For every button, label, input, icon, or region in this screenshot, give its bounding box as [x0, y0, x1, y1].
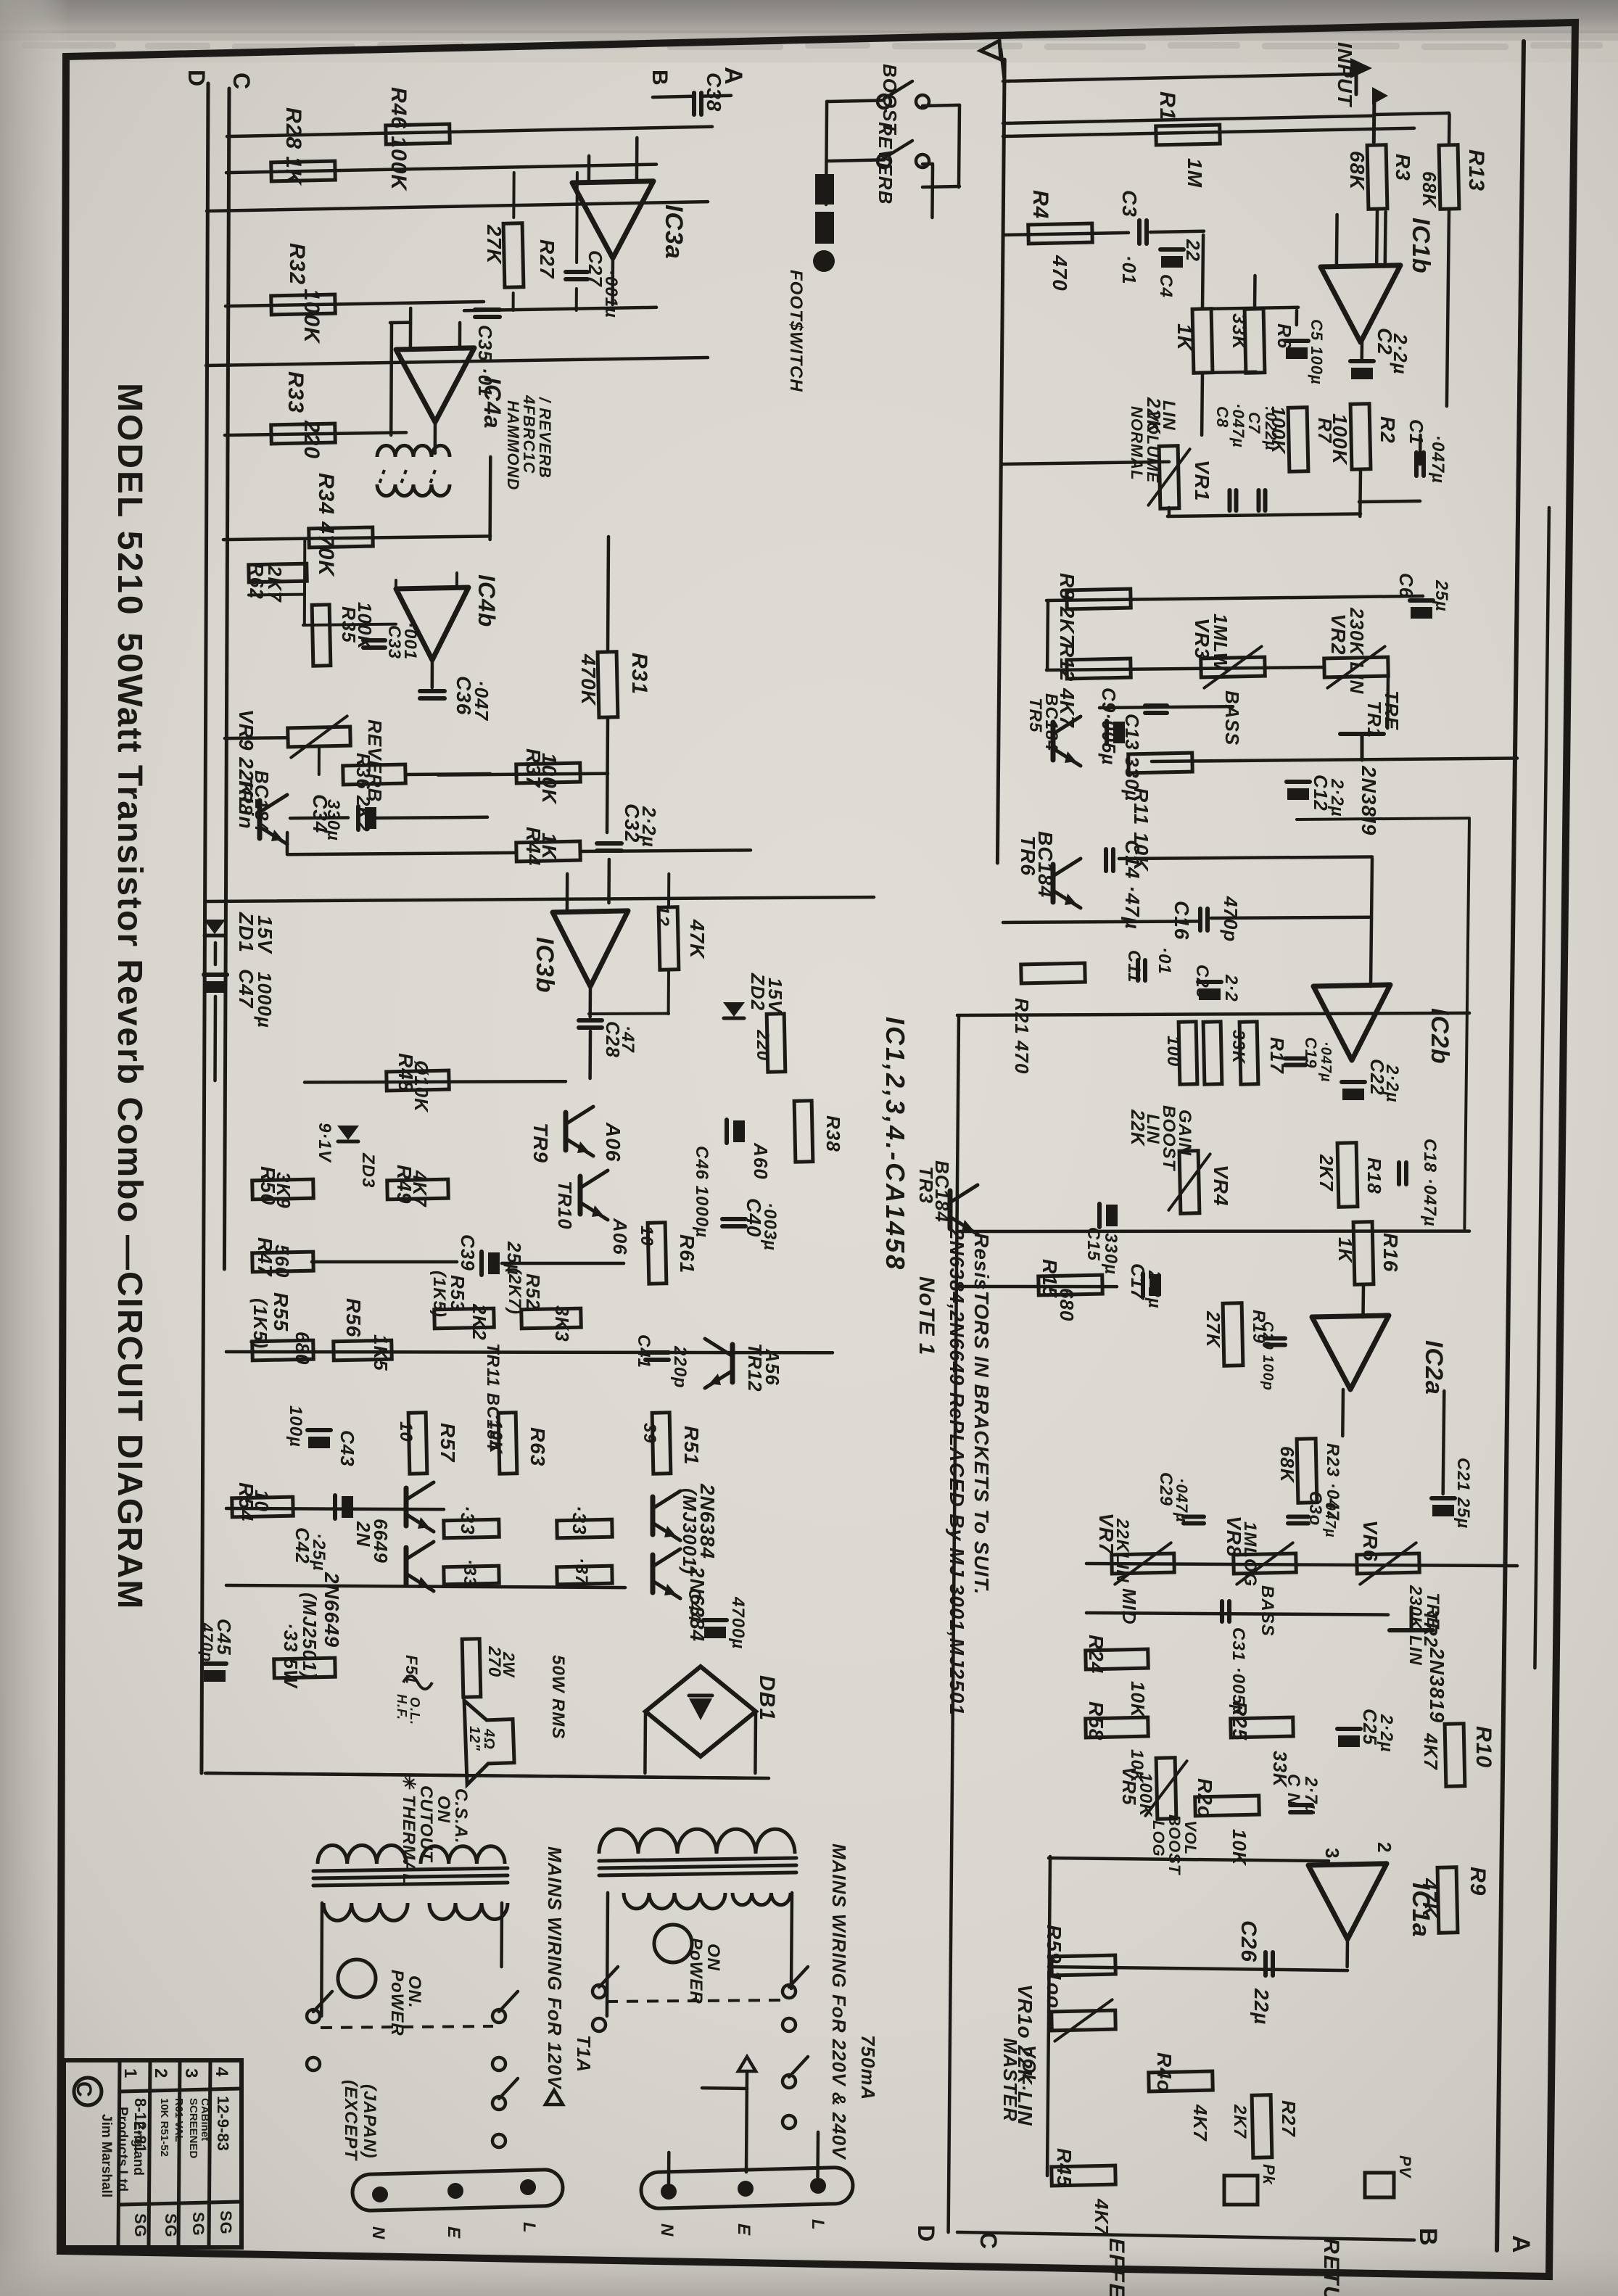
svg-text:R58: R58: [1085, 1701, 1107, 1740]
svg-text:IC2b: IC2b: [1426, 1008, 1453, 1065]
svg-text:1K: 1K: [1173, 323, 1196, 352]
svg-text:VOLUME: VOLUME: [1144, 410, 1162, 483]
svg-text:R57: R57: [437, 1423, 459, 1463]
svg-text:1?: 1?: [653, 905, 672, 927]
cap C39 25u: [479, 1252, 484, 1275]
svg-text:TR1: TR1: [1363, 701, 1385, 738]
long bus under reverb section: [205, 897, 874, 901]
cap C4 22u: [1160, 247, 1184, 252]
svg-text:VOL.: VOL.: [1018, 2045, 1040, 2092]
svg-text:68K: 68K: [1346, 151, 1369, 191]
inner right margin line: [1497, 41, 1524, 2250]
svg-text:E: E: [734, 2223, 754, 2236]
bus y1270: [1003, 921, 1198, 922]
transistor TR2 fet: [1390, 1628, 1433, 1632]
svg-text:3K3: 3K3: [551, 1305, 573, 1342]
wire R32 row: [226, 302, 484, 306]
power transistor 2N6384 upper: [651, 1497, 656, 1535]
svg-text:22: 22: [1182, 239, 1204, 262]
long bus row5: [206, 358, 708, 366]
bottom shading: [0, 2245, 1618, 2296]
cap C27: [566, 270, 587, 274]
cap C40 .0033: [722, 1217, 746, 1221]
svg-text:BC184: BC184: [931, 1160, 953, 1223]
bus y1698: [957, 1229, 1469, 1233]
svg-text:BOOST: BOOST: [1165, 1814, 1184, 1875]
svg-text:4K7: 4K7: [1091, 2198, 1113, 2236]
svg-text:N: N: [368, 2226, 388, 2239]
svg-text:SG: SG: [131, 2213, 149, 2238]
resistor R62 2K7: [249, 563, 307, 582]
cap C41 220p: [645, 1350, 669, 1355]
zener ZD2: [723, 1002, 745, 1017]
cap C9 .005: [1145, 703, 1167, 708]
svg-text:R34 470K: R34 470K: [314, 473, 338, 577]
svg-text:6649: 6649: [370, 1519, 392, 1564]
svg-text:R16: R16: [1379, 1233, 1402, 1272]
svg-text:R52: R52: [522, 1273, 544, 1310]
svg-text:750mA: 750mA: [857, 2035, 879, 2100]
svg-text:·01: ·01: [1155, 947, 1174, 975]
svg-text:DB1: DB1: [755, 1675, 779, 1721]
svg-text:·003µ: ·003µ: [760, 1202, 780, 1251]
svg-text:L: L: [808, 2219, 827, 2231]
resistor R12 4K7: [1067, 658, 1131, 679]
svg-text:NORMAL: NORMAL: [1128, 406, 1146, 481]
right mains loop: [607, 1893, 608, 2016]
footswitch jack blobs: [815, 174, 834, 205]
svg-text:Pk: Pk: [1260, 2164, 1278, 2186]
svg-text:C1: C1: [1406, 419, 1427, 445]
svg-text:470: 470: [1049, 255, 1071, 292]
IC4a wires: [409, 308, 413, 350]
svg-text:39: 39: [640, 1423, 659, 1444]
svg-text:33K: 33K: [1229, 313, 1250, 351]
send return jacks: [1224, 2176, 1258, 2205]
resistor R27 vertical: [1252, 2095, 1272, 2158]
power on lamp right: [654, 1925, 692, 1962]
svg-text:C7: C7: [1245, 412, 1263, 434]
svg-text:R2: R2: [1376, 416, 1399, 444]
svg-text:2N38I9: 2N38I9: [1358, 765, 1380, 835]
svg-text:R63: R63: [527, 1427, 549, 1466]
svg-text:(JAPAN): (JAPAN): [360, 2084, 379, 2159]
svg-text:3: 3: [1321, 1848, 1343, 1859]
svg-text:27K: 27K: [1202, 1310, 1224, 1349]
mains plug right: [640, 2167, 853, 2209]
svg-text:B: B: [1414, 2228, 1442, 2247]
svg-text:R6: R6: [1274, 323, 1295, 349]
svg-text:SG: SG: [217, 2210, 235, 2235]
resistor 220 vertical: [767, 1014, 785, 1072]
svg-text:SG: SG: [189, 2212, 207, 2237]
svg-text:HAMMOND: HAMMOND: [504, 400, 522, 490]
op-amp IC4a: [396, 348, 474, 422]
svg-text:SG: SG: [162, 2213, 180, 2238]
cap C13 330u: [1105, 721, 1109, 744]
svg-text:R21 470: R21 470: [1011, 998, 1033, 1074]
cap C33: [363, 638, 385, 643]
long bus row3: [207, 202, 708, 211]
svg-text:C4: C4: [1156, 274, 1176, 298]
wire C35 row: [464, 307, 656, 311]
svg-text:R55: R55: [270, 1292, 292, 1331]
svg-text:C21 25µ: C21 25µ: [1453, 1458, 1473, 1529]
svg-text:C6: C6: [1395, 573, 1417, 598]
IC4b wires: [249, 593, 305, 597]
svg-text:C38: C38: [703, 73, 725, 112]
svg-text:22µ: 22µ: [1250, 1988, 1273, 2025]
cap C14 .47u: [1104, 849, 1108, 871]
cap C17 2.2u: [1141, 1273, 1145, 1297]
resistor R21 470: [1021, 963, 1086, 983]
svg-text:C26: C26: [1237, 1920, 1260, 1962]
svg-text:Products Ltd: Products Ltd: [115, 2107, 130, 2192]
svg-text:1MLOG: 1MLOG: [1240, 1521, 1260, 1587]
resistor R57 10: [408, 1413, 427, 1474]
speaker: [464, 1699, 515, 1785]
resistor R8 2K7: [1067, 589, 1131, 609]
svg-text:2·2µ: 2·2µ: [638, 806, 660, 848]
svg-text:IC1,2,3,4.-CA1458: IC1,2,3,4.-CA1458: [880, 1017, 910, 1271]
svg-text:10K: 10K: [1127, 1681, 1149, 1719]
svg-text:R38: R38: [822, 1115, 844, 1152]
svg-text:4700µ: 4700µ: [728, 1596, 748, 1649]
svg-text:R28 1K: R28 1K: [281, 107, 305, 186]
svg-text:2N6384: 2N6384: [696, 1483, 719, 1559]
svg-text:TR9: TR9: [529, 1123, 552, 1163]
wire R33 row: [225, 432, 406, 435]
svg-text:R1: R1: [1155, 91, 1179, 120]
main vertical bus x1383: [997, 59, 1004, 863]
bus y2560: [1049, 1858, 1329, 1861]
resistor R49 4K7: [387, 1179, 449, 1199]
cap C21 25u: [1432, 1496, 1455, 1500]
svg-text:R2o: R2o: [1194, 1778, 1216, 1819]
svg-text:BASS: BASS: [1221, 690, 1243, 746]
pot VR1 22K vertical: [1159, 446, 1179, 509]
cap C35: [475, 307, 500, 312]
cap C34 electrolytic: [356, 806, 360, 830]
pot VR2 230K LIN: [1324, 657, 1389, 677]
svg-text:1: 1: [120, 2068, 140, 2078]
cap C38 top: [692, 93, 696, 115]
resistor R31 470K vertical: [598, 652, 618, 718]
cap C47 1000u: [204, 973, 227, 977]
cap C36: [420, 689, 445, 693]
svg-text:50Watt Transistor Reverb Combo: 50Watt Transistor Reverb Combo —CIRCUIT …: [110, 632, 149, 1610]
svg-text:100K: 100K: [1136, 1772, 1155, 1817]
switch circles right: [593, 1985, 606, 1998]
svg-text:IC4b: IC4b: [474, 574, 500, 627]
svg-text:R53: R53: [447, 1275, 469, 1312]
svg-text:·047µ: ·047µ: [1173, 1478, 1191, 1523]
svg-text:R61 VAL: R61 VAL: [173, 2098, 185, 2142]
svg-text:C: C: [72, 2081, 96, 2097]
bus D vertical: [202, 83, 208, 1773]
bus y1400: [957, 1013, 1469, 1015]
svg-text:ON.: ON.: [405, 1975, 424, 2009]
cap C11 .01: [1136, 960, 1140, 980]
svg-text:IC2a: IC2a: [1420, 1340, 1448, 1395]
svg-text:B: B: [648, 70, 672, 86]
resistor R38: [794, 1101, 813, 1162]
resistor R63 10K: [498, 1413, 517, 1474]
loop wire: [1297, 818, 1469, 819]
resistor R7 100K vertical: [1288, 408, 1308, 472]
svg-text:2·2µ: 2·2µ: [1382, 1064, 1402, 1103]
svg-text:R3: R3: [1392, 154, 1414, 181]
resistor R9 47K vertical: [1437, 1867, 1458, 1933]
svg-text:·047µ: ·047µ: [1322, 1497, 1338, 1538]
resistor R45 4K7: [1052, 2165, 1116, 2186]
wire R34 row: [223, 536, 490, 540]
svg-text:·33: ·33: [569, 1506, 590, 1535]
cap C6 25u: [1410, 598, 1433, 603]
svg-text:LOG: LOG: [1149, 1820, 1168, 1857]
svg-text:9·1V: 9·1V: [315, 1123, 334, 1163]
long bus mid y820: [1047, 596, 1423, 600]
svg-text:C39: C39: [457, 1234, 479, 1271]
svg-text:ON: ON: [434, 1796, 453, 1823]
svg-text:100K: 100K: [354, 602, 376, 651]
svg-text:D: D: [913, 2225, 939, 2242]
resistor 33K vertical: [1203, 1022, 1222, 1084]
svg-text:·001µ: ·001µ: [601, 270, 621, 318]
long bus y1050: [1152, 759, 1517, 762]
svg-text:50W RMS: 50W RMS: [548, 1655, 568, 1739]
svg-text:TR10: TR10: [554, 1181, 576, 1230]
svg-text:GAIN: GAIN: [1175, 1110, 1194, 1156]
svg-text:4K7: 4K7: [409, 1170, 431, 1207]
svg-text:R46 100K: R46 100K: [387, 87, 410, 191]
cap C26 22u: [1263, 1952, 1268, 1975]
resistor R35 vertical: [312, 605, 331, 666]
mid verticals bottom: [949, 1015, 959, 2232]
dashed link right: [606, 2000, 783, 2002]
svg-text:BC184: BC184: [1041, 693, 1061, 751]
svg-text:(EXCEPT: (EXCEPT: [341, 2080, 360, 2161]
svg-text:100µ: 100µ: [286, 1405, 305, 1448]
op-amp IC2b: [1313, 985, 1390, 1060]
svg-text:680: 680: [292, 1331, 313, 1365]
svg-text:47K: 47K: [686, 919, 709, 959]
svg-text:Jim Marshall: Jim Marshall: [99, 2114, 114, 2197]
pot VR7 MID: [1112, 1553, 1175, 1574]
second pair .33: [557, 1519, 612, 1538]
resistor R18 2K7 vertical: [1337, 1143, 1358, 1207]
svg-text:68K: 68K: [1419, 171, 1440, 209]
svg-text:IC1b: IC1b: [1407, 218, 1435, 274]
transistor TR10: [578, 1176, 583, 1214]
cap C46 4700u: [703, 1618, 727, 1622]
svg-text:2N3819: 2N3819: [1426, 1647, 1448, 1723]
svg-text:47K: 47K: [1419, 1878, 1441, 1918]
svg-text:C29: C29: [1156, 1472, 1176, 1506]
cap C48: [725, 1120, 729, 1143]
resistor R2 100K vertical: [1350, 404, 1371, 470]
resistor R10 4K7 vertical: [1445, 1724, 1465, 1787]
cap C15 330u: [1097, 1204, 1102, 1227]
resistor R4 470: [1028, 223, 1093, 244]
svg-text:N: N: [657, 2223, 677, 2237]
power lamp left: [338, 1960, 376, 1997]
transistor TR3: [948, 1191, 953, 1228]
cap C12 2.2u: [1287, 780, 1310, 784]
cap C31 .005: [1220, 1601, 1224, 1622]
cap C20 100p: [1265, 1337, 1285, 1341]
svg-text:R17: R17: [1266, 1037, 1288, 1074]
svg-text:BASS: BASS: [1258, 1585, 1277, 1637]
svg-text:T1A: T1A: [573, 2035, 595, 2073]
svg-text:C: C: [975, 2232, 1002, 2250]
svg-text:MODEL 5210: MODEL 5210: [110, 383, 149, 617]
cap C30: [1288, 1515, 1308, 1519]
svg-text:15V: 15V: [254, 915, 276, 954]
copyright symbol: [74, 2078, 102, 2105]
svg-text:330µ: 330µ: [1101, 1233, 1120, 1275]
svg-text:R4o: R4o: [1153, 2052, 1176, 2093]
svg-text:C23: C23: [1192, 965, 1212, 999]
resistor R27 vertical 27K: [503, 223, 524, 288]
cap C5 100u: [1285, 339, 1308, 343]
pot VR6 treble: [1357, 1553, 1420, 1574]
resistor R50 3K9: [252, 1179, 314, 1199]
svg-text:O.L.: O.L.: [408, 1697, 422, 1725]
primary winding right transformer: [624, 1893, 725, 1909]
svg-text:3K9: 3K9: [273, 1172, 294, 1209]
cap C18 .047: [1397, 1163, 1401, 1184]
earth arrow left: [545, 2090, 563, 2105]
svg-text:A60: A60: [750, 1142, 772, 1180]
svg-text:2·2µ: 2·2µ: [1376, 1714, 1396, 1753]
resistor R36 2K2: [343, 764, 406, 785]
svg-text:C16: C16: [1171, 901, 1193, 940]
svg-text:560: 560: [271, 1244, 293, 1278]
line to R1: [1003, 116, 1374, 123]
svg-text:1MLW: 1MLW: [1210, 614, 1231, 672]
resistor R24 10K: [1086, 1649, 1149, 1669]
svg-text:TR2: TR2: [1420, 1610, 1442, 1648]
op-amp IC1b: [1321, 265, 1400, 342]
top gray band above paper edge: [0, 0, 1618, 33]
pot VR9 22K LIN: [288, 727, 351, 747]
right vertical frame inner2: [1535, 508, 1549, 1668]
svg-text:C11: C11: [1124, 950, 1144, 983]
transistor TR9: [564, 1112, 569, 1150]
svg-text:VOL: VOL: [1181, 1820, 1200, 1855]
svg-text:BC184: BC184: [251, 770, 273, 833]
svg-text:4K7: 4K7: [1420, 1733, 1442, 1770]
resistor R34: [309, 527, 373, 548]
svg-text:VR4: VR4: [1210, 1165, 1232, 1206]
bus C vertical: [224, 88, 229, 1269]
svg-text:R31: R31: [627, 653, 651, 695]
svg-text:·047µ: ·047µ: [1318, 1041, 1334, 1083]
svg-text:4: 4: [212, 2067, 231, 2077]
svg-text:3: 3: [181, 2068, 201, 2078]
svg-text:R8 2K7: R8 2K7: [1056, 573, 1078, 646]
svg-text:C N: C N: [1284, 1774, 1303, 1806]
svg-text:2K7: 2K7: [264, 565, 286, 603]
bus y2445: [207, 1773, 769, 1778]
svg-text:R13: R13: [1464, 149, 1488, 191]
svg-text:25µ: 25µ: [1432, 579, 1451, 612]
svg-text:SCREENED: SCREENED: [187, 2098, 199, 2159]
svg-text:R56: R56: [342, 1298, 365, 1337]
op-amp IC1a: [1308, 1864, 1387, 1939]
svg-text:2·2µ: 2·2µ: [1390, 333, 1411, 375]
svg-text:RETURN: RETURN: [1319, 2238, 1343, 2296]
switch circles left: [307, 2010, 320, 2023]
svg-text:1000µ: 1000µ: [254, 972, 276, 1028]
output transformer windings: [318, 1846, 406, 1864]
svg-text:VR1: VR1: [1191, 460, 1213, 501]
svg-text:2: 2: [1374, 1842, 1395, 1853]
cap C2 2.2u: [1350, 359, 1374, 363]
svg-text:2·2: 2·2: [1221, 974, 1241, 1002]
svg-text:C44: C44: [685, 1588, 704, 1622]
cap C24 2.7: [1290, 1803, 1312, 1807]
pot VR4 vertical: [1179, 1151, 1200, 1214]
resistor R25 33K: [1231, 1717, 1294, 1738]
transistor TR12 A56: [730, 1345, 735, 1382]
svg-text:C18 ·047µ: C18 ·047µ: [1420, 1139, 1440, 1227]
svg-text:EFFECTS SEND: EFFECTS SEND: [1105, 2238, 1128, 2296]
svg-text:68K: 68K: [1276, 1446, 1298, 1484]
svg-text:470K: 470K: [577, 653, 600, 706]
svg-text:ON: ON: [703, 1944, 723, 1971]
revision title block: [64, 2060, 242, 2247]
svg-text:1K: 1K: [1334, 1237, 1356, 1263]
resistor R46: [386, 124, 450, 144]
resistor R16 1K vertical: [1353, 1222, 1374, 1285]
svg-text:ResisTORS IN BRACKETS To SUIT.: ResisTORS IN BRACKETS To SUIT.: [970, 1233, 993, 1595]
svg-text:·33: ·33: [457, 1506, 479, 1535]
cap C1 .047: [1414, 453, 1419, 476]
svg-text:C8: C8: [1213, 406, 1231, 428]
transistor TR1 junction fet: [1340, 732, 1384, 736]
op-amp IC3a: [572, 181, 653, 258]
resistor R11 10K: [1128, 753, 1193, 773]
svg-text:C20 100p: C20 100p: [1260, 1321, 1276, 1391]
svg-text:R32: R32: [285, 243, 309, 285]
svg-text:L: L: [519, 2222, 539, 2234]
resistor .33 5W: [274, 1658, 336, 1678]
svg-text:330µ: 330µ: [323, 799, 343, 841]
svg-text:A06: A06: [602, 1122, 624, 1162]
svg-text:R51: R51: [680, 1426, 703, 1465]
svg-text:4K7: 4K7: [1189, 2104, 1211, 2142]
svg-text:12-9-83: 12-9-83: [214, 2096, 232, 2151]
svg-text:C5 100µ: C5 100µ: [1308, 319, 1326, 385]
svg-text:PV: PV: [1396, 2155, 1414, 2179]
bridge rectifier DB1: [645, 1667, 756, 1756]
svg-text:4Ω: 4Ω: [481, 1728, 497, 1750]
resistor 270: [462, 1639, 481, 1697]
svg-text:C.S.A.: C.S.A.: [451, 1788, 471, 1844]
svg-text:12": 12": [466, 1726, 482, 1751]
cap C23 2.2: [1198, 980, 1221, 984]
output transformer core: [313, 1868, 508, 1871]
resistor 47K feedback: [659, 907, 679, 970]
svg-text:C19: C19: [1302, 1037, 1320, 1068]
svg-text:470p: 470p: [198, 1622, 216, 1662]
right vertical x2092: [1503, 181, 1522, 1773]
svg-text:R24: R24: [1085, 1635, 1107, 1674]
svg-text:(2K7): (2K7): [505, 1268, 524, 1315]
wire R46 row: [227, 127, 712, 137]
